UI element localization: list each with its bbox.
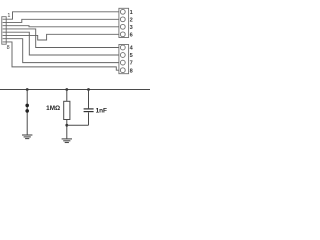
svg-text:6: 6	[130, 32, 133, 38]
junction on bus at resistor branch	[65, 88, 68, 91]
svg-text:8: 8	[7, 45, 10, 51]
connector X1 (top right, pins 1 2 3 6)	[119, 8, 129, 37]
svg-text:2: 2	[130, 17, 133, 23]
ground (left, below spark gap)	[22, 135, 32, 139]
label 1nF	[96, 107, 107, 114]
wire capacitor branch top	[88, 90, 90, 109]
wire resistor branch top	[66, 90, 68, 102]
wire pin7	[3, 39, 119, 63]
wire bottom node (to capacitor bottom)	[67, 124, 89, 126]
spark gap F1 (electrode dots)	[25, 104, 29, 113]
pin label 1 (left connector)	[7, 13, 10, 19]
terminal labels 1 2 3 6	[130, 10, 133, 39]
wire pin5	[3, 32, 119, 55]
wire capacitor branch bottom	[88, 112, 90, 125]
svg-text:1nF: 1nF	[96, 107, 107, 114]
svg-text:3: 3	[130, 25, 133, 31]
ground (right, below resistor)	[62, 139, 72, 143]
resistor R (1 Mohm)	[64, 101, 70, 119]
wire spark gap branch	[26, 90, 28, 135]
svg-text:1: 1	[130, 10, 133, 16]
wire pin4	[3, 29, 119, 48]
wire pin3	[3, 26, 119, 27]
wire pin2	[3, 19, 119, 22]
wire pin6 (with routing detour)	[3, 34, 119, 40]
pin label 8 (left connector)	[7, 45, 10, 51]
terminal labels 4 5 7 8	[130, 46, 134, 75]
svg-text:1MΩ: 1MΩ	[46, 105, 60, 112]
wire resistor branch bottom	[66, 120, 68, 139]
svg-text:4: 4	[130, 46, 134, 52]
wire pin1	[3, 12, 119, 19]
connector X2 (bottom right, pins 4 5 7 8)	[119, 45, 129, 74]
svg-text:8: 8	[130, 68, 133, 74]
svg-text:5: 5	[130, 53, 133, 59]
svg-text:7: 7	[130, 61, 133, 67]
capacitor C (1 nF)	[84, 109, 94, 112]
connector J1 (8P8C modular plug, left)	[2, 17, 6, 45]
svg-text:1: 1	[7, 13, 10, 19]
junction on bus at capacitor branch	[87, 88, 90, 91]
wire pin8	[3, 42, 119, 70]
junction on bus at spark gap branch	[26, 88, 29, 91]
label 1 Mohm	[46, 105, 60, 112]
wire shield bus	[0, 89, 150, 91]
junction at resistor/capacitor bottom node	[65, 124, 68, 127]
